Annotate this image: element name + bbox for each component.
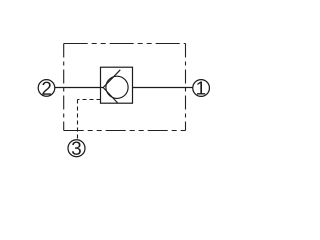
check valve ball — [106, 76, 128, 98]
port 1 circle — [193, 80, 210, 97]
wire: main flow line from port 2 to valve seat — [55, 87, 104, 89]
pilot line (dashed) horizontal run to valve — [78, 99, 101, 101]
port 2 circle — [38, 80, 55, 97]
port 2 label "2" — [42, 82, 51, 95]
port 3 circle — [68, 140, 85, 157]
port 3 label "3" — [72, 142, 81, 155]
pilot line (dashed) vertical run to port 3 — [77, 100, 79, 140]
wire: main flow line from valve body to port 1 — [133, 87, 193, 89]
check valve seat (V) — [103, 70, 120, 103]
valve envelope (dashed boundary) right edge — [185, 44, 187, 131]
valve envelope (dashed boundary) left edge — [63, 44, 65, 131]
valve envelope (dashed boundary) bottom edge — [64, 130, 186, 132]
port 1 label "1" — [197, 82, 205, 95]
check valve body (square) — [101, 67, 133, 103]
valve envelope (dashed boundary) top edge — [64, 43, 186, 45]
